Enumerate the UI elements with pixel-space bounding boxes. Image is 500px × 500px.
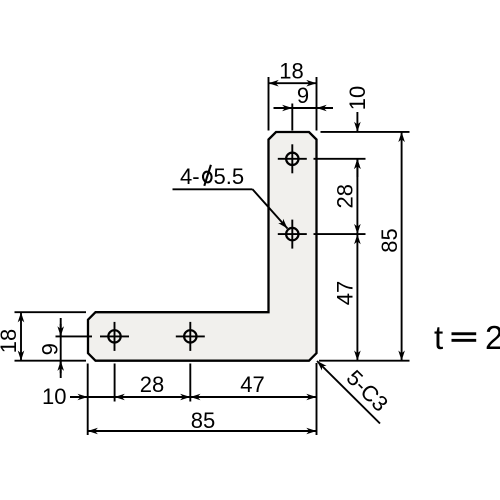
dimension 47 (right, hole H2 to bottom edge) xyxy=(356,234,358,361)
dimension 85 (right, overall height) xyxy=(319,132,410,361)
dimension 28 (bottom, hole H3 to H4) xyxy=(88,396,317,398)
svg-text:28: 28 xyxy=(333,184,358,208)
svg-text:9: 9 xyxy=(297,83,309,108)
svg-text:85: 85 xyxy=(191,408,215,433)
dimension 18 (top width) xyxy=(269,77,317,131)
hole H1 (vertical arm, top) xyxy=(278,144,307,173)
svg-text:4-: 4- xyxy=(180,164,200,189)
leader 4-phi5.5 (hole callout) xyxy=(173,189,288,228)
dimension 9 (left, hole H3 to bottom edge) xyxy=(56,318,93,378)
svg-text:18: 18 xyxy=(0,329,21,353)
dimension 9 (top, hole to right edge) xyxy=(274,104,334,131)
dimension 10 (right, top edge to hole H1) xyxy=(314,112,410,177)
extension lines below part xyxy=(88,363,317,435)
dimension 10 (bottom, left edge to hole H3) xyxy=(70,396,88,398)
svg-text:47: 47 xyxy=(240,372,264,397)
dimension 18 (left, arm height) xyxy=(15,312,87,361)
svg-text:18: 18 xyxy=(279,58,303,83)
svg-text:10: 10 xyxy=(42,384,66,409)
svg-text:2: 2 xyxy=(485,319,500,356)
hole H3 (horizontal arm, left) xyxy=(100,322,129,351)
svg-text:5.5: 5.5 xyxy=(214,164,245,189)
hole H2 (vertical arm, bottom) xyxy=(278,220,307,249)
dimension 47 (bottom, hole H4 to right edge) xyxy=(190,396,316,398)
svg-text:t: t xyxy=(434,319,443,356)
svg-text:47: 47 xyxy=(333,281,358,305)
part: L-shaped bracket outline with chamfered corners xyxy=(88,132,317,361)
leader 5-C3 (chamfer callout) xyxy=(317,361,380,424)
svg-text:28: 28 xyxy=(140,372,164,397)
dimension 28 (right, hole H1 to H2) xyxy=(314,159,366,234)
svg-text:9: 9 xyxy=(38,343,63,355)
svg-text:85: 85 xyxy=(377,228,402,252)
hole H4 (horizontal arm, right) xyxy=(176,322,205,351)
svg-text:10: 10 xyxy=(345,86,370,110)
dimension 85 (bottom, overall width) xyxy=(88,430,317,432)
